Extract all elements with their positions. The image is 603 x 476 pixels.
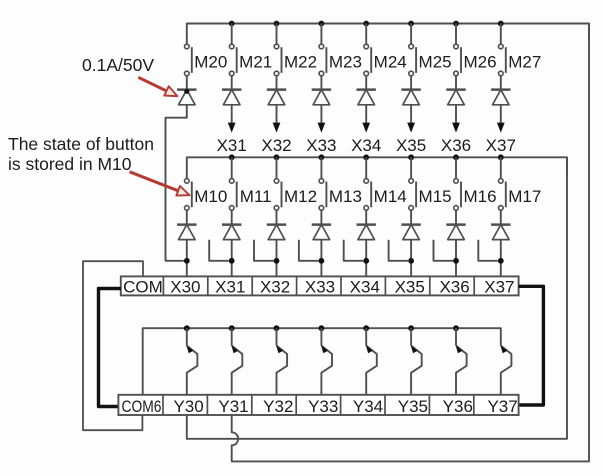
label M10 (194, 187, 227, 206)
diode top row col 5 (357, 90, 376, 105)
label M27 (508, 53, 541, 72)
switch contact M16 (454, 157, 461, 210)
label X37 (input name) (486, 136, 516, 155)
switch contact M14 (364, 157, 371, 210)
label M12 (284, 187, 317, 206)
transistor output Y37 (501, 345, 512, 394)
stub wire hook at terminal X31 (209, 240, 229, 261)
terminal label COM6 (122, 397, 162, 416)
node junction on output bus col 6 (408, 325, 414, 331)
stub wire hook at terminal X36 (434, 240, 454, 261)
svg-text:X31: X31 (215, 278, 245, 297)
label X32 (input name) (261, 136, 291, 155)
arrowhead to input X35 (407, 123, 415, 133)
node junction on output bus col 1 (184, 325, 190, 331)
red arrow callout to M10 contact (130, 172, 190, 196)
wire switch to diode col 8 row2 (500, 210, 502, 225)
node junction on output bus col 2 (229, 325, 235, 331)
terminal label Y35 (398, 397, 428, 416)
label M26 (463, 53, 496, 72)
transistor output Y36 (456, 328, 467, 395)
label M21 (239, 53, 272, 72)
switch contact M20 (185, 44, 192, 76)
svg-text:0.1A/50V: 0.1A/50V (82, 55, 154, 75)
wire diode to terminal X37 (500, 240, 502, 277)
diode middle row col 8 (491, 225, 510, 240)
terminal label Y34 (353, 397, 383, 416)
arrowhead to input X33 (318, 123, 326, 133)
svg-text:M17: M17 (508, 187, 541, 206)
svg-text:M23: M23 (329, 53, 362, 72)
annotation text: state of button (8, 134, 154, 174)
diode top row col 4 (312, 90, 331, 105)
diode top row col 8 (491, 90, 510, 105)
label M16 (463, 187, 496, 206)
svg-text:M13: M13 (329, 187, 362, 206)
diode middle row col 5 (357, 225, 376, 240)
label X34 (input name) (351, 136, 381, 155)
svg-text:X32: X32 (260, 278, 290, 297)
switch contact M10 (185, 179, 192, 211)
wire switch to diode col 2 row2 (231, 210, 233, 225)
diode top row col 7 (446, 90, 465, 105)
wire switch to diode col 3 (276, 76, 278, 90)
svg-text:X34: X34 (350, 278, 380, 297)
switch contact M26 (454, 24, 461, 76)
transistor output Y33 (321, 328, 332, 395)
wire diode to terminal X36 (455, 240, 457, 277)
terminal label COM (123, 278, 163, 297)
svg-text:Y31: Y31 (218, 397, 248, 416)
label M23 (329, 53, 362, 72)
svg-text:X37: X37 (484, 278, 514, 297)
terminal label Y36 (443, 397, 473, 416)
svg-text:M26: M26 (463, 53, 496, 72)
terminal label X36 (439, 278, 469, 297)
wire switch to diode col 6 (410, 76, 412, 90)
arrowhead to input X34 (362, 123, 370, 133)
svg-text:X36: X36 (441, 136, 471, 155)
wire diode to arrow col 6 (410, 105, 412, 124)
svg-text:X33: X33 (306, 136, 336, 155)
diode middle row col 4 (312, 225, 331, 240)
transistor output Y34 (366, 328, 377, 395)
terminal label Y33 (308, 397, 338, 416)
node above terminal X32 (274, 258, 280, 264)
svg-text:X35: X35 (396, 136, 426, 155)
wire Y30 to middle bus (right side) (187, 157, 567, 439)
svg-text:M24: M24 (374, 53, 407, 72)
wire diode to arrow col 4 (320, 105, 322, 124)
svg-text:Y37: Y37 (487, 397, 517, 416)
label X35 (input name) (396, 136, 426, 155)
wire switch to diode col 1 (186, 76, 188, 90)
switch contact M17 (499, 157, 506, 210)
node junction on output bus col 3 (274, 325, 280, 331)
diode middle row col 7 (446, 225, 465, 240)
diode top row col 1 (177, 90, 196, 105)
terminal label X35 (395, 278, 425, 297)
wire Y31 to top bus with hop over Y30 wire (232, 24, 589, 462)
node above terminal X36 (453, 258, 459, 264)
terminal label Y32 (263, 397, 293, 416)
label M11 (240, 187, 272, 206)
svg-text:X31: X31 (217, 136, 247, 155)
wire diode to terminal X34 (365, 240, 367, 277)
wire diode to terminal X35 (410, 240, 412, 277)
diode top row col 2 (222, 90, 241, 105)
node junction on output bus col 7 (453, 325, 459, 331)
svg-text:X36: X36 (439, 278, 469, 297)
label M22 (284, 53, 317, 72)
red arrow callout to diode D1 (138, 77, 177, 96)
diode middle row col 2 (222, 225, 241, 240)
switch contact M24 (364, 24, 371, 76)
svg-text:X34: X34 (351, 136, 381, 155)
diode middle row col 1 (177, 225, 196, 240)
wire switch to diode col 5 row2 (365, 210, 367, 225)
svg-text:X35: X35 (395, 278, 425, 297)
wire diode to arrow col 5 (365, 105, 367, 124)
wire diode to terminal X33 (320, 240, 322, 277)
svg-text:The state of button: The state of button (8, 134, 154, 154)
switch contact M12 (274, 157, 281, 210)
diode middle row col 3 (267, 225, 286, 240)
node junction on output bus col 4 (319, 325, 325, 331)
wire switch to diode col 4 row2 (320, 210, 322, 225)
transistor output Y32 (276, 328, 287, 395)
svg-text:X32: X32 (261, 136, 291, 155)
wire switch to diode col 8 (500, 76, 502, 90)
node junction on middle bus col 4 (319, 154, 325, 160)
stub wire hook at terminal X32 (254, 240, 274, 261)
wire diode to arrow col 2 (231, 105, 233, 124)
svg-text:M25: M25 (419, 53, 452, 72)
label M14 (374, 187, 407, 206)
label M13 (329, 187, 362, 206)
transistor output Y30 (187, 328, 198, 395)
svg-text:M12: M12 (284, 187, 317, 206)
wire from diode D1 around left side down to X30 node (166, 105, 187, 261)
svg-text:Y33: Y33 (308, 397, 338, 416)
label X33 (input name) (306, 136, 336, 155)
node junction on top bus col 5 (363, 21, 369, 27)
wire switch to diode col 5 (365, 76, 367, 90)
node junction on middle bus col 5 (363, 154, 369, 160)
stub wire hook at terminal X37 (478, 240, 498, 261)
node junction on top bus col 3 (274, 21, 280, 27)
Y output terminal block outline (118, 395, 518, 415)
terminal label X31 (215, 278, 245, 297)
middle bus wire (M10-M17 row) (187, 157, 567, 178)
node junction on top bus col 8 (498, 21, 504, 27)
node above terminal X37 (498, 258, 504, 264)
arrowhead to input X36 (452, 123, 460, 133)
svg-text:M27: M27 (508, 53, 541, 72)
node junction on top bus col 4 (319, 21, 325, 27)
svg-text:Y30: Y30 (173, 397, 203, 416)
svg-text:Y34: Y34 (353, 397, 383, 416)
node dot on diode D1 bar (184, 89, 189, 94)
svg-text:COM: COM (123, 278, 163, 297)
node above terminal X33 (319, 258, 325, 264)
switch contact M22 (274, 24, 281, 76)
terminal label X30 (170, 278, 200, 297)
switch contact M27 (499, 24, 506, 76)
wire switch to diode col 3 row2 (276, 210, 278, 225)
wire switch to diode col 4 (320, 76, 322, 90)
svg-text:COM6: COM6 (122, 397, 162, 416)
diode middle row col 6 (401, 225, 420, 240)
node junction on top bus col 6 (408, 21, 414, 27)
transistor output Y35 (411, 328, 422, 395)
label M25 (419, 53, 452, 72)
node junction on output bus col 5 (363, 325, 369, 331)
svg-text:is stored in M10: is stored in M10 (8, 154, 132, 174)
terminal label X37 (484, 278, 514, 297)
wire diode to terminal X30 (186, 240, 188, 277)
node junction on top bus col 2 (229, 21, 235, 27)
transistor output Y31 (231, 328, 242, 395)
node above terminal X35 (408, 258, 414, 264)
terminal label Y37 (487, 397, 517, 416)
wire diode to terminal X31 (231, 240, 233, 277)
svg-text:M14: M14 (374, 187, 407, 206)
wire diode to arrow col 7 (455, 105, 457, 124)
thick wire COM to COM6 (left) (99, 289, 121, 407)
stub wire hook at terminal X35 (389, 240, 409, 261)
node junction on top bus col 7 (453, 21, 459, 27)
terminal label X33 (305, 278, 335, 297)
svg-text:M22: M22 (284, 53, 317, 72)
svg-text:X33: X33 (305, 278, 335, 297)
svg-text:M20: M20 (194, 53, 227, 72)
svg-text:Y36: Y36 (443, 397, 473, 416)
switch contact M13 (319, 157, 326, 210)
svg-text:X37: X37 (486, 136, 516, 155)
stub wire hook at terminal X34 (344, 240, 364, 261)
svg-text:M16: M16 (463, 187, 496, 206)
annotation text 0.1A/50V (82, 55, 154, 75)
node junction on middle bus col 6 (408, 154, 414, 160)
thin outer loop wire COM top to COM6 bottom (83, 261, 143, 430)
top supply bus wire (M20-M27 row) (187, 24, 589, 45)
diode top row col 6 (401, 90, 420, 105)
node above terminal X30 (184, 258, 190, 264)
label X31 (input name) (217, 136, 247, 155)
svg-text:Y32: Y32 (263, 397, 293, 416)
thick wire X37 to Y37 (right) (519, 286, 544, 405)
svg-text:M15: M15 (419, 187, 452, 206)
X input terminal block outline (121, 276, 519, 295)
label M20 (194, 53, 227, 72)
stub wire hook at terminal X33 (299, 240, 319, 261)
wire diode to arrow col 8 (500, 105, 502, 124)
node junction on middle bus col 7 (453, 154, 459, 160)
switch contact M21 (229, 24, 236, 76)
terminal label X34 (350, 278, 380, 297)
svg-text:M11: M11 (240, 187, 272, 206)
node junction on middle bus col 3 (274, 154, 280, 160)
arrowhead to input X37 (497, 123, 505, 133)
svg-text:M10: M10 (194, 187, 227, 206)
node above terminal X34 (363, 258, 369, 264)
switch contact M25 (409, 24, 416, 76)
switch contact M11 (229, 157, 236, 210)
wire switch to diode col 6 row2 (410, 210, 412, 225)
terminal label Y31 (218, 397, 248, 416)
terminal label Y30 (173, 397, 203, 416)
node junction on middle bus col 8 (498, 154, 504, 160)
label M17 (508, 187, 541, 206)
label M15 (419, 187, 452, 206)
wire switch to diode col 7 row2 (455, 210, 457, 225)
wire switch to diode col 2 (231, 76, 233, 90)
wire switch to diode col 7 (455, 76, 457, 90)
switch contact M23 (319, 24, 326, 76)
svg-text:M21: M21 (239, 53, 272, 72)
svg-text:X30: X30 (170, 278, 200, 297)
diode top row col 3 (267, 90, 286, 105)
wire switch to diode col 1 row2 (186, 210, 188, 225)
svg-text:Y35: Y35 (398, 397, 428, 416)
wire diode to arrow col 3 (276, 105, 278, 124)
arrowhead to input X32 (273, 123, 281, 133)
node junction on middle bus col 2 (229, 154, 235, 160)
node above terminal X31 (229, 258, 235, 264)
label X36 (input name) (441, 136, 471, 155)
terminal label X32 (260, 278, 290, 297)
label M24 (374, 53, 407, 72)
output section bus wire (143, 328, 501, 395)
switch contact M15 (409, 157, 416, 210)
arrowhead to input X31 (228, 123, 236, 133)
wire diode to terminal X32 (276, 240, 278, 277)
